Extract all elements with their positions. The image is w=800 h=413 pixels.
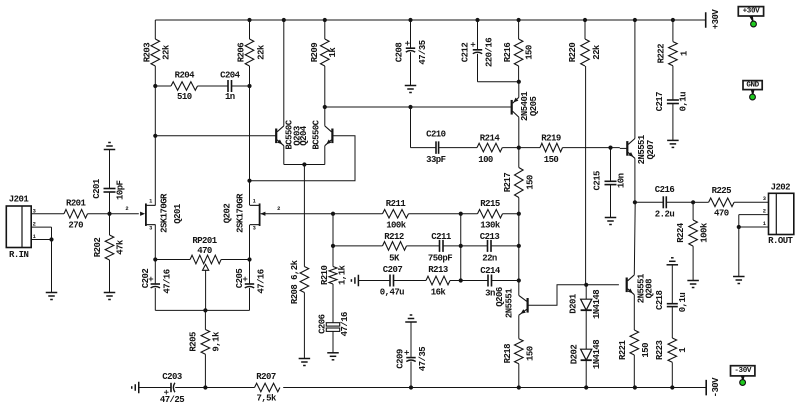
svg-text:R215: R215 bbox=[480, 199, 500, 209]
svg-text:+30V: +30V bbox=[711, 9, 721, 30]
svg-text:22n: 22n bbox=[482, 254, 497, 264]
svg-text:47/35: 47/35 bbox=[418, 347, 428, 371]
svg-text:10n: 10n bbox=[617, 173, 627, 188]
svg-text:150: 150 bbox=[524, 45, 534, 60]
svg-text:R201: R201 bbox=[66, 199, 87, 209]
svg-text:150: 150 bbox=[544, 155, 559, 165]
svg-text:33pF: 33pF bbox=[426, 155, 446, 165]
svg-text:1: 1 bbox=[33, 234, 36, 240]
svg-text:R.IN: R.IN bbox=[9, 250, 29, 260]
svg-text:J202: J202 bbox=[771, 182, 791, 192]
svg-text:100k: 100k bbox=[700, 222, 710, 243]
svg-text:7,5k: 7,5k bbox=[256, 394, 277, 404]
svg-text:BC550C: BC550C bbox=[312, 119, 322, 149]
svg-text:Q202: Q202 bbox=[223, 204, 233, 224]
svg-text:3: 3 bbox=[253, 226, 256, 232]
svg-text:R220: R220 bbox=[568, 43, 578, 63]
svg-text:C207: C207 bbox=[383, 265, 403, 275]
svg-text:100k: 100k bbox=[386, 221, 407, 231]
svg-text:2: 2 bbox=[125, 206, 128, 212]
svg-text:C206: C206 bbox=[318, 314, 328, 334]
svg-text:R210: R210 bbox=[320, 265, 330, 285]
svg-text:C213: C213 bbox=[480, 232, 500, 242]
svg-text:150: 150 bbox=[526, 175, 536, 190]
svg-text:270: 270 bbox=[68, 221, 83, 231]
svg-text:470: 470 bbox=[714, 209, 729, 219]
svg-text:3: 3 bbox=[33, 209, 36, 215]
svg-text:47/16: 47/16 bbox=[340, 312, 350, 336]
svg-text:C211: C211 bbox=[431, 232, 452, 242]
svg-text:R212: R212 bbox=[384, 232, 404, 242]
svg-text:1: 1 bbox=[253, 198, 256, 204]
svg-text:2.2u: 2.2u bbox=[655, 210, 675, 220]
svg-text:R217: R217 bbox=[503, 173, 513, 193]
svg-text:3: 3 bbox=[149, 226, 152, 232]
svg-text:R219: R219 bbox=[541, 133, 561, 143]
svg-text:Q205: Q205 bbox=[529, 97, 539, 117]
svg-text:0,1u: 0,1u bbox=[678, 293, 688, 313]
svg-text:C205: C205 bbox=[235, 269, 245, 289]
svg-text:R222: R222 bbox=[657, 44, 667, 64]
svg-text:R205: R205 bbox=[189, 332, 199, 352]
svg-text:Q204: Q204 bbox=[299, 125, 309, 146]
svg-text:C212: C212 bbox=[461, 43, 471, 63]
svg-text:47/25: 47/25 bbox=[160, 395, 184, 405]
svg-text:RP201: RP201 bbox=[192, 236, 217, 246]
svg-text:C209: C209 bbox=[396, 349, 406, 369]
svg-text:2: 2 bbox=[277, 206, 280, 212]
svg-text:J201: J201 bbox=[9, 195, 30, 205]
svg-text:2N5551: 2N5551 bbox=[505, 288, 515, 318]
svg-text:1,1k: 1,1k bbox=[337, 264, 347, 285]
svg-text:1N4148: 1N4148 bbox=[592, 290, 602, 319]
svg-text:-30V: -30V bbox=[711, 377, 721, 398]
svg-text:150: 150 bbox=[641, 343, 651, 358]
svg-text:47/16: 47/16 bbox=[163, 269, 173, 293]
svg-text:R221: R221 bbox=[618, 339, 628, 360]
svg-text:10pF: 10pF bbox=[116, 180, 126, 200]
svg-text:150: 150 bbox=[526, 346, 536, 361]
svg-text:9,1k: 9,1k bbox=[211, 331, 221, 352]
svg-text:R213: R213 bbox=[428, 265, 448, 275]
svg-text:750pF: 750pF bbox=[428, 254, 452, 264]
svg-text:C204: C204 bbox=[220, 71, 241, 81]
svg-text:R214: R214 bbox=[480, 133, 501, 143]
svg-text:2SK170GR: 2SK170GR bbox=[236, 193, 246, 233]
svg-text:16k: 16k bbox=[431, 288, 447, 298]
svg-text:22k: 22k bbox=[161, 44, 171, 60]
svg-text:C203: C203 bbox=[162, 372, 182, 382]
svg-text:R202: R202 bbox=[93, 238, 103, 258]
svg-text:0,1u: 0,1u bbox=[678, 92, 688, 112]
svg-text:Q207: Q207 bbox=[646, 140, 656, 160]
svg-text:47/35: 47/35 bbox=[418, 40, 428, 64]
svg-text:510: 510 bbox=[177, 92, 192, 102]
svg-text:1k: 1k bbox=[328, 47, 338, 58]
svg-text:100: 100 bbox=[478, 155, 493, 165]
svg-text:+30V: +30V bbox=[743, 8, 760, 16]
svg-text:3: 3 bbox=[763, 196, 766, 202]
svg-text:1: 1 bbox=[763, 221, 766, 227]
svg-text:470: 470 bbox=[197, 246, 212, 256]
svg-text:1N4148: 1N4148 bbox=[592, 340, 602, 369]
svg-text:R208 6,2k: R208 6,2k bbox=[290, 259, 300, 304]
svg-text:C210: C210 bbox=[426, 129, 446, 139]
svg-text:2: 2 bbox=[763, 209, 766, 215]
svg-text:22k: 22k bbox=[592, 44, 602, 60]
svg-text:220/16: 220/16 bbox=[484, 38, 494, 67]
svg-text:R207: R207 bbox=[256, 372, 276, 382]
svg-text:C201: C201 bbox=[92, 178, 102, 199]
svg-text:2SK170GR: 2SK170GR bbox=[160, 193, 170, 233]
svg-text:R218: R218 bbox=[503, 344, 513, 364]
svg-text:R225: R225 bbox=[712, 186, 732, 196]
svg-text:R204: R204 bbox=[175, 71, 196, 81]
svg-text:130k: 130k bbox=[480, 221, 501, 231]
svg-text:R216: R216 bbox=[503, 43, 513, 63]
svg-text:GND: GND bbox=[746, 82, 759, 90]
svg-text:C202: C202 bbox=[141, 269, 151, 289]
svg-text:Q208: Q208 bbox=[645, 279, 655, 299]
svg-text:R224: R224 bbox=[676, 222, 686, 243]
svg-text:C218: C218 bbox=[655, 290, 665, 310]
svg-text:C216: C216 bbox=[655, 185, 675, 195]
svg-text:1n: 1n bbox=[225, 92, 235, 102]
svg-text:R209: R209 bbox=[310, 43, 320, 63]
svg-text:0,47u: 0,47u bbox=[380, 288, 404, 298]
svg-text:-30V: -30V bbox=[734, 367, 751, 375]
svg-text:Q201: Q201 bbox=[173, 203, 183, 224]
svg-text:Q206: Q206 bbox=[495, 287, 505, 307]
svg-text:1: 1 bbox=[149, 198, 152, 204]
svg-text:R203: R203 bbox=[143, 43, 153, 63]
svg-text:47/16: 47/16 bbox=[257, 269, 267, 293]
svg-text:3n: 3n bbox=[485, 288, 495, 298]
svg-text:D202: D202 bbox=[570, 345, 580, 365]
svg-text:D201: D201 bbox=[568, 293, 578, 314]
svg-text:R211: R211 bbox=[386, 199, 407, 209]
svg-text:C208: C208 bbox=[394, 43, 404, 63]
svg-text:R223: R223 bbox=[655, 340, 665, 360]
svg-text:R206: R206 bbox=[236, 43, 246, 63]
svg-text:C214: C214 bbox=[480, 266, 501, 276]
svg-text:47k: 47k bbox=[116, 239, 126, 255]
svg-text:R.OUT: R.OUT bbox=[768, 236, 793, 246]
svg-text:C215: C215 bbox=[593, 171, 603, 191]
svg-text:2: 2 bbox=[33, 221, 36, 227]
svg-text:C217: C217 bbox=[655, 92, 665, 112]
svg-text:5K: 5K bbox=[389, 254, 400, 264]
svg-text:22k: 22k bbox=[256, 44, 266, 60]
